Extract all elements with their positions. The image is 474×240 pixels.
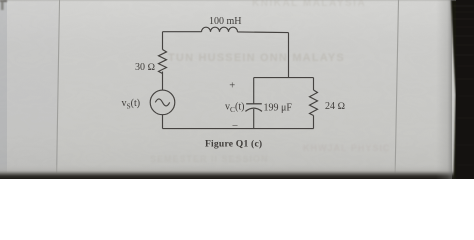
wire: left vertical top segment (162, 32, 164, 50)
right paper-edge shadow then black background (436, 0, 452, 179)
faint watermark smudge top (252, 0, 366, 9)
faint darker top edge (0, 0, 455, 1)
resistor R2 (24 ohm) zigzag (310, 90, 318, 115)
wire: right vertical drop to parallel section (288, 33, 290, 78)
wire: 24-ohm resistor branch lower (313, 116, 315, 129)
faint watermark smudge bottom left (150, 154, 269, 164)
svg-text:vS(t): vS(t) (122, 98, 141, 111)
svg-text:199 μF: 199 μF (264, 103, 293, 114)
wire: resistor R1 to source (162, 72, 164, 91)
svg-text:24 Ω: 24 Ω (325, 101, 346, 112)
wire: capacitor branch upper (253, 78, 255, 104)
svg-text:KHWJAL PHYSIC: KHWJAL PHYSIC (303, 143, 390, 153)
voltage source VS sine symbol (155, 99, 169, 106)
subtle darker zone left of crease (0, 0, 58, 179)
wire: bottom rail (163, 128, 314, 130)
voltage source VS circle (150, 90, 175, 115)
wire: source bottom to bottom rail (162, 115, 164, 129)
svg-text:+: + (229, 81, 235, 92)
top-left dark mark (0, 0, 7, 10)
capacitor C1 bottom plate (curved) (245, 108, 262, 111)
svg-text:KNIKAL MALAYSIA: KNIKAL MALAYSIA (252, 0, 366, 9)
bottom dark band (0, 164, 474, 179)
right crease line (395, 0, 399, 179)
svg-text:SEMESTER II SESSION: SEMESTER II SESSION (150, 154, 269, 164)
left crease line (57, 0, 60, 179)
paper grain (0, 0, 474, 179)
wire: inductor to top-right corner (238, 31, 289, 34)
capacitor C1 top plate (246, 103, 262, 105)
resistor R1 (30 ohm) zigzag (159, 50, 167, 74)
faint watermark smudge lower right (303, 143, 390, 153)
streak texture on black area (453, 6, 474, 165)
wire: parallel section top rail (254, 77, 314, 79)
wire: 24-ohm resistor branch upper (313, 78, 315, 90)
svg-text:vC(t): vC(t) (225, 102, 244, 115)
svg-text:Figure Q1 (c): Figure Q1 (c) (205, 139, 262, 150)
faint watermark row: TUN HUSSEIN ONN MALAYS (168, 52, 345, 64)
svg-text:–: – (232, 120, 239, 131)
wire: capacitor branch lower (253, 109, 255, 129)
inductor L1 (100 mH) (202, 27, 238, 32)
paper background (0, 0, 474, 179)
svg-text:100 mH: 100 mH (209, 16, 242, 27)
svg-text:TUN HUSSEIN ONN MALAYS: TUN HUSSEIN ONN MALAYS (168, 52, 345, 64)
svg-text:30 Ω: 30 Ω (135, 62, 156, 73)
wire: top rail, corner to inductor (163, 31, 202, 33)
